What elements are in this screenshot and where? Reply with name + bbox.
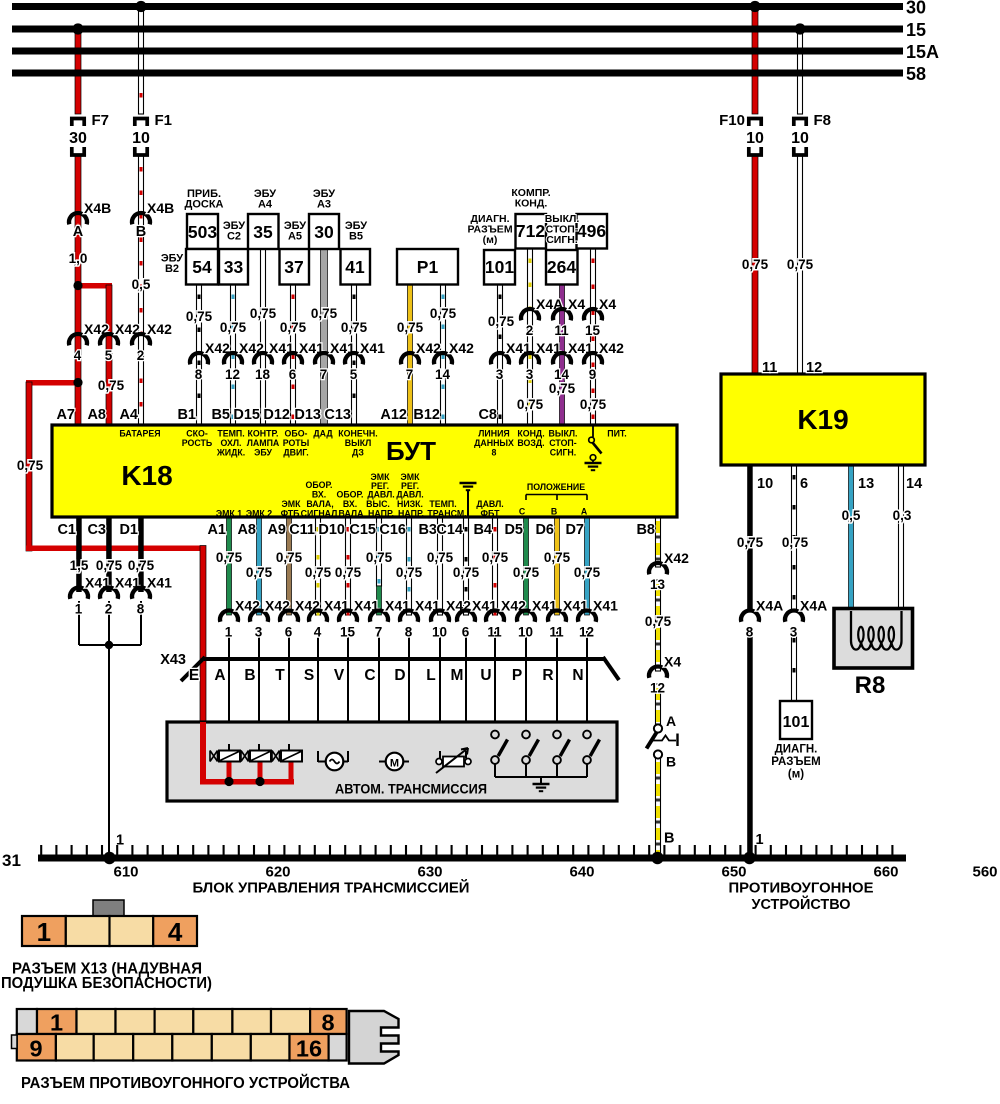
svg-text:C3: C3 bbox=[87, 522, 106, 538]
svg-text:РОСТЬ: РОСТЬ bbox=[182, 438, 213, 448]
fuse F1 10A bbox=[135, 119, 147, 127]
svg-text:D: D bbox=[394, 667, 405, 684]
svg-text:A7: A7 bbox=[56, 407, 75, 423]
svg-text:5: 5 bbox=[350, 367, 358, 382]
connector X41:8 bbox=[132, 587, 150, 598]
svg-text:6: 6 bbox=[800, 476, 808, 492]
wire: D6 position B - yellow bbox=[555, 517, 560, 615]
svg-text:620: 620 bbox=[265, 864, 290, 881]
svg-text:K18: K18 bbox=[121, 460, 172, 491]
svg-text:L: L bbox=[426, 667, 435, 684]
svg-text:D10: D10 bbox=[318, 522, 345, 538]
wire: K19 pin13 cyan to R8 bbox=[849, 465, 854, 609]
svg-text:7: 7 bbox=[320, 367, 328, 382]
svg-text:F1: F1 bbox=[155, 112, 173, 129]
svg-text:A4: A4 bbox=[119, 407, 138, 423]
busbar junction dots bbox=[72, 23, 83, 34]
svg-text:X42: X42 bbox=[449, 340, 474, 356]
svg-text:ЖИДК.: ЖИДК. bbox=[216, 448, 245, 458]
busbar 15 bbox=[12, 26, 903, 33]
svg-text:СТОП-: СТОП- bbox=[549, 438, 576, 448]
svg-text:ТРАНСМ.: ТРАНСМ. bbox=[427, 509, 466, 519]
wire: A1 solenoid1 - green bbox=[227, 517, 232, 615]
connector X13 airbag drawing bbox=[93, 900, 124, 917]
svg-text:0,75: 0,75 bbox=[17, 458, 44, 473]
wire: white/red from bus 30 through fuse F1 (column A4) bbox=[139, 6, 144, 114]
svg-text:0,75: 0,75 bbox=[276, 550, 303, 565]
svg-text:ДАВЛ.: ДАВЛ. bbox=[396, 490, 423, 500]
svg-text:0,75: 0,75 bbox=[453, 565, 480, 580]
svg-text:1,0: 1,0 bbox=[69, 251, 88, 266]
svg-text:A: A bbox=[73, 224, 84, 240]
svg-text:КОНД.: КОНД. bbox=[517, 429, 544, 439]
svg-text:101: 101 bbox=[485, 257, 514, 277]
wires: thin leads from connectors into automatic transmission bbox=[228, 628, 230, 751]
wire: A8 solenoid2 - cyan bbox=[257, 517, 262, 615]
svg-text:ФТБ: ФТБ bbox=[281, 509, 301, 519]
wire: power - white/red from 496 bbox=[591, 249, 596, 426]
svg-text:КОНД.: КОНД. bbox=[515, 198, 548, 210]
svg-text:D5: D5 bbox=[504, 522, 523, 538]
svg-text:B4: B4 bbox=[473, 522, 492, 538]
svg-text:B: B bbox=[664, 831, 674, 847]
svg-text:A: A bbox=[214, 667, 225, 684]
svg-text:СИГН.: СИГН. bbox=[550, 448, 576, 458]
svg-text:С2: С2 bbox=[227, 231, 241, 243]
svg-text:0,75: 0,75 bbox=[246, 565, 273, 580]
svg-text:(м): (м) bbox=[788, 769, 804, 781]
connector X41:7 bbox=[315, 353, 333, 364]
svg-text:ДОСКА: ДОСКА bbox=[185, 199, 224, 211]
svg-text:ВЫС.: ВЫС. bbox=[366, 499, 390, 509]
svg-text:0,75: 0,75 bbox=[366, 550, 393, 565]
svg-text:R: R bbox=[542, 667, 553, 684]
svg-text:3: 3 bbox=[790, 625, 798, 640]
svg-text:3: 3 bbox=[255, 625, 263, 640]
svg-text:F7: F7 bbox=[92, 112, 110, 129]
svg-text:ОБОР.: ОБОР. bbox=[336, 490, 363, 500]
svg-text:A12: A12 bbox=[380, 407, 407, 423]
svg-text:0,75: 0,75 bbox=[430, 306, 457, 321]
connector X42:12 bbox=[224, 353, 242, 364]
svg-text:15: 15 bbox=[585, 323, 601, 338]
svg-text:10: 10 bbox=[432, 625, 447, 640]
svg-text:0,75: 0,75 bbox=[513, 565, 540, 580]
connector X4A:8 bbox=[741, 610, 759, 621]
svg-text:ДВИГ.: ДВИГ. bbox=[283, 448, 308, 458]
svg-text:C: C bbox=[519, 507, 526, 517]
box 30 ECU A3 bbox=[309, 214, 339, 249]
busbar 30 bbox=[12, 3, 903, 10]
svg-text:СИГНАЛ: СИГНАЛ bbox=[301, 509, 338, 519]
box 503 instrument panel bbox=[187, 214, 218, 249]
box 54 bbox=[186, 249, 218, 285]
svg-text:4: 4 bbox=[314, 625, 322, 640]
svg-text:8: 8 bbox=[321, 1010, 334, 1036]
svg-text:0,75: 0,75 bbox=[396, 565, 423, 580]
svg-text:ПОДУШКА БЕЗОПАСНОСТИ): ПОДУШКА БЕЗОПАСНОСТИ) bbox=[1, 975, 212, 992]
svg-text:P: P bbox=[512, 667, 522, 684]
connector X41:6 bbox=[284, 353, 302, 364]
svg-text:37: 37 bbox=[284, 257, 303, 277]
connector X41:8 bbox=[400, 610, 418, 621]
svg-text:N: N bbox=[572, 667, 583, 684]
svg-text:0,75: 0,75 bbox=[186, 309, 213, 324]
wire: white F8 (K19 pin 12) bbox=[798, 29, 803, 114]
svg-text:А4: А4 bbox=[258, 199, 273, 211]
connector X41:6 bbox=[457, 610, 475, 621]
wire: K19 pin6 white/black to X4A:3 and connector 101 bbox=[792, 465, 797, 611]
svg-text:D13: D13 bbox=[294, 407, 321, 423]
svg-text:264: 264 bbox=[547, 257, 576, 277]
K18 internal ground (C14 area) bbox=[467, 490, 469, 517]
fuse F10 10A bbox=[749, 119, 761, 127]
svg-text:КОНТР.: КОНТР. bbox=[248, 429, 279, 439]
svg-text:11: 11 bbox=[487, 625, 502, 640]
svg-text:D7: D7 bbox=[565, 522, 584, 538]
svg-text:0,75: 0,75 bbox=[128, 558, 155, 573]
svg-text:610: 610 bbox=[113, 864, 138, 881]
wire: B8 - white/yellow to X42:13 bbox=[656, 517, 661, 567]
svg-text:ВХ.: ВХ. bbox=[312, 490, 326, 500]
svg-text:C13: C13 bbox=[324, 407, 351, 423]
svg-text:ЛИНИЯ: ЛИНИЯ bbox=[478, 429, 510, 439]
box 496 stop signal switch bbox=[577, 214, 608, 249]
wire: B12 - white/cyan from P1 bbox=[441, 285, 446, 426]
svg-text:10: 10 bbox=[132, 130, 150, 147]
connector X42:2 bbox=[132, 334, 150, 345]
svg-text:7: 7 bbox=[406, 367, 414, 382]
svg-text:18: 18 bbox=[255, 367, 271, 382]
svg-text:B: B bbox=[666, 754, 676, 770]
connector X41:7 bbox=[370, 610, 388, 621]
svg-text:8: 8 bbox=[195, 367, 203, 382]
svg-text:0,75: 0,75 bbox=[341, 320, 368, 335]
svg-text:X4A: X4A bbox=[800, 598, 827, 614]
svg-text:15A: 15A bbox=[906, 42, 939, 62]
connector X42:7 bbox=[401, 353, 419, 364]
svg-text:0,75: 0,75 bbox=[782, 535, 809, 550]
svg-text:630: 630 bbox=[417, 864, 442, 881]
connector X41:4 bbox=[309, 610, 327, 621]
svg-text:6: 6 bbox=[285, 625, 293, 640]
svg-text:8: 8 bbox=[137, 602, 145, 617]
svg-text:13: 13 bbox=[858, 476, 874, 492]
svg-text:М: М bbox=[390, 758, 399, 770]
red supply rail inside transmission bbox=[200, 722, 206, 784]
bus junction dots bbox=[103, 852, 115, 864]
connector X42:8 bbox=[190, 353, 208, 364]
svg-text:РАЗЪЕМ: РАЗЪЕМ bbox=[771, 756, 820, 768]
svg-text:БЛОК УПРАВЛЕНИЯ ТРАНСМИССИЕЙ: БЛОК УПРАВЛЕНИЯ ТРАНСМИССИЕЙ bbox=[193, 879, 470, 897]
svg-text:X4B: X4B bbox=[84, 200, 111, 216]
svg-text:А3: А3 bbox=[317, 199, 331, 211]
wire: C16 - white/cyan bbox=[407, 517, 412, 615]
svg-text:8: 8 bbox=[746, 625, 754, 640]
svg-text:14: 14 bbox=[906, 476, 922, 492]
variable resistor (temp sensor) bbox=[436, 759, 442, 765]
svg-text:D6: D6 bbox=[535, 522, 554, 538]
wire: B8 from switch contact B down to bus 31 bbox=[656, 758, 661, 858]
connector X42:13 on B8 wire bbox=[649, 563, 667, 574]
connector X42:5 bbox=[100, 334, 118, 345]
svg-text:0,75: 0,75 bbox=[335, 565, 362, 580]
wire: K19 pin14 white to R8 bbox=[899, 465, 904, 609]
svg-text:ОБОР.: ОБОР. bbox=[305, 480, 332, 490]
motor symbol M bbox=[386, 753, 404, 771]
connector X4B pin B bbox=[132, 213, 150, 224]
svg-text:X41: X41 bbox=[360, 340, 385, 356]
svg-text:A1: A1 bbox=[207, 522, 226, 538]
anti-theft connector drawing bbox=[17, 1009, 37, 1034]
svg-text:E: E bbox=[189, 667, 199, 684]
solenoid 1 bbox=[210, 751, 218, 762]
connector X41:15 bbox=[339, 610, 357, 621]
svg-text:31: 31 bbox=[2, 851, 21, 870]
svg-text:R8: R8 bbox=[855, 672, 886, 699]
wire: ground lead down to bus 31 bbox=[108, 645, 110, 858]
svg-text:1: 1 bbox=[50, 1010, 63, 1036]
svg-text:1: 1 bbox=[37, 917, 51, 947]
svg-text:РАЗЪЕМ ПРОТИВОУГОННОГО УСТРОЙС: РАЗЪЕМ ПРОТИВОУГОННОГО УСТРОЙСТВА bbox=[21, 1074, 350, 1092]
svg-text:A: A bbox=[666, 713, 676, 729]
svg-text:БУТ: БУТ bbox=[386, 436, 436, 466]
svg-text:ДИАГН.: ДИАГН. bbox=[775, 744, 818, 756]
svg-text:15: 15 bbox=[906, 20, 926, 40]
svg-text:0,75: 0,75 bbox=[96, 558, 123, 573]
svg-text:35: 35 bbox=[253, 222, 273, 242]
svg-text:(м): (м) bbox=[483, 234, 498, 246]
svg-text:5: 5 bbox=[105, 348, 113, 363]
svg-text:ВЫКЛ.: ВЫКЛ. bbox=[549, 429, 578, 439]
svg-text:1,5: 1,5 bbox=[70, 558, 89, 573]
diagnostic connector 101 bbox=[780, 701, 812, 739]
R8 coil bbox=[851, 611, 902, 650]
svg-text:101: 101 bbox=[783, 714, 810, 731]
box 41 bbox=[341, 249, 371, 285]
connector X41:1 bbox=[70, 587, 88, 598]
svg-text:B5: B5 bbox=[211, 407, 230, 423]
svg-text:0,75: 0,75 bbox=[517, 397, 544, 412]
svg-text:0,75: 0,75 bbox=[580, 397, 607, 412]
svg-text:6: 6 bbox=[462, 625, 470, 640]
svg-text:560: 560 bbox=[972, 864, 997, 881]
wire: a/c - white/yellow from 712 bbox=[528, 249, 533, 426]
connector X42:1 bbox=[220, 610, 238, 621]
svg-text:M: M bbox=[451, 667, 464, 684]
svg-text:30: 30 bbox=[69, 130, 87, 147]
svg-text:41: 41 bbox=[345, 257, 365, 277]
svg-text:13: 13 bbox=[650, 577, 666, 592]
connector X41:3 bbox=[521, 353, 539, 364]
svg-text:U: U bbox=[480, 667, 491, 684]
svg-text:0,75: 0,75 bbox=[280, 320, 307, 335]
svg-text:K19: K19 bbox=[797, 404, 848, 435]
svg-text:12: 12 bbox=[806, 360, 822, 376]
wire: B1 speed - white/black bbox=[197, 285, 202, 426]
connector X41:14 bbox=[553, 353, 571, 364]
svg-text:ВХ.: ВХ. bbox=[343, 499, 357, 509]
svg-text:X42: X42 bbox=[664, 550, 689, 566]
svg-text:11: 11 bbox=[554, 323, 569, 338]
svg-text:4: 4 bbox=[74, 348, 82, 363]
wire: D13 - grey from box 30 bbox=[321, 249, 328, 425]
connector X4:11 bbox=[553, 309, 571, 320]
svg-text:33: 33 bbox=[224, 257, 244, 277]
svg-text:X41: X41 bbox=[147, 575, 172, 591]
svg-text:НАПР.: НАПР. bbox=[368, 509, 394, 519]
svg-text:9: 9 bbox=[589, 367, 597, 382]
wire: D12 - white/red bbox=[291, 285, 296, 426]
connector X42:10 bbox=[431, 610, 449, 621]
svg-text:D12: D12 bbox=[263, 407, 290, 423]
connector X4A:2 bbox=[521, 309, 539, 320]
resistor R8 bbox=[834, 609, 913, 669]
svg-text:496: 496 bbox=[577, 221, 606, 241]
svg-text:СКО-: СКО- bbox=[186, 429, 208, 439]
box 37 bbox=[280, 249, 310, 285]
svg-text:650: 650 bbox=[721, 864, 746, 881]
connector X41:11 bbox=[548, 610, 566, 621]
svg-text:6: 6 bbox=[289, 367, 297, 382]
wire: D7 position A - cyan bbox=[585, 517, 590, 615]
connector X42:9 bbox=[584, 353, 602, 364]
svg-text:ФБТ: ФБТ bbox=[481, 509, 501, 519]
connector X41:5 bbox=[345, 353, 363, 364]
svg-text:0,75: 0,75 bbox=[742, 257, 769, 272]
connector X42:14 bbox=[434, 353, 452, 364]
svg-text:10: 10 bbox=[791, 130, 809, 147]
svg-text:0,75: 0,75 bbox=[645, 614, 672, 629]
svg-text:X4B: X4B bbox=[147, 200, 174, 216]
svg-text:РОТЫ: РОТЫ bbox=[283, 438, 310, 448]
wire: C15 - white/cyan then green bbox=[377, 517, 382, 586]
connector X41:12 bbox=[578, 610, 596, 621]
svg-text:D15: D15 bbox=[233, 407, 260, 423]
svg-text:C14: C14 bbox=[436, 522, 463, 538]
svg-text:0,75: 0,75 bbox=[787, 257, 814, 272]
svg-text:АВТОМ. ТРАНСМИССИЯ: АВТОМ. ТРАНСМИССИЯ bbox=[335, 781, 487, 797]
svg-text:ДЗ: ДЗ bbox=[352, 448, 364, 458]
right plug of anti-theft connector bbox=[349, 1011, 399, 1064]
svg-text:0,75: 0,75 bbox=[574, 565, 601, 580]
svg-text:B1: B1 bbox=[177, 407, 196, 423]
busbar 15A bbox=[12, 48, 903, 55]
svg-text:2: 2 bbox=[526, 323, 534, 338]
svg-text:12: 12 bbox=[650, 681, 665, 696]
wire: A9 FTB - brown bbox=[287, 517, 292, 615]
svg-text:ЛАМПА: ЛАМПА bbox=[247, 438, 280, 448]
svg-text:ВАЛА,: ВАЛА, bbox=[306, 499, 333, 509]
wire: C8 data line - white/black bbox=[498, 285, 503, 426]
svg-text:НАПР.: НАПР. bbox=[398, 509, 424, 519]
wire: B8 between X4:12 and switch contact A bbox=[656, 684, 661, 724]
svg-text:C1: C1 bbox=[57, 522, 76, 538]
svg-text:ВЫКЛ: ВЫКЛ bbox=[345, 438, 372, 448]
svg-text:B: B bbox=[136, 224, 146, 240]
svg-text:54: 54 bbox=[192, 257, 212, 277]
wire: C11 - white/yellow bbox=[316, 517, 321, 615]
svg-text:ВОЗД.: ВОЗД. bbox=[517, 438, 544, 448]
solenoid 2 bbox=[241, 751, 249, 762]
connector X41:18 bbox=[254, 353, 272, 364]
svg-text:0,75: 0,75 bbox=[544, 550, 571, 565]
svg-text:X43: X43 bbox=[160, 652, 186, 668]
wire: D10 - white/red bbox=[346, 517, 351, 615]
wire: red branch left down to X43:E bbox=[26, 380, 81, 386]
svg-text:0,75: 0,75 bbox=[427, 550, 454, 565]
svg-text:ВАЛА: ВАЛА bbox=[339, 509, 365, 519]
wire: B8 between X42:13 and X4:12 bbox=[656, 580, 661, 671]
svg-text:ЭБУ: ЭБУ bbox=[254, 448, 272, 458]
solenoid 3 bbox=[272, 751, 280, 762]
wire: A12 - yellow from P1 bbox=[408, 285, 413, 426]
svg-text:0,5: 0,5 bbox=[842, 508, 861, 523]
svg-text:30: 30 bbox=[906, 0, 926, 18]
box 35 ECU A4 bbox=[248, 214, 279, 249]
wire: D1 black to X41:8 bbox=[138, 517, 144, 592]
connector X4:12 on B8 wire bbox=[649, 666, 667, 677]
svg-text:C15: C15 bbox=[349, 522, 376, 538]
svg-text:S: S bbox=[304, 667, 314, 684]
svg-text:ОХЛ.: ОХЛ. bbox=[221, 438, 242, 448]
connector X42:11 bbox=[486, 610, 504, 621]
svg-text:2: 2 bbox=[105, 602, 113, 617]
svg-text:БАТАРЕЯ: БАТАРЕЯ bbox=[119, 429, 160, 439]
svg-text:640: 640 bbox=[569, 864, 594, 881]
svg-text:В5: В5 bbox=[349, 231, 363, 243]
svg-text:ДАД: ДАД bbox=[313, 429, 333, 439]
svg-text:А5: А5 bbox=[288, 231, 302, 243]
svg-text:T: T bbox=[275, 667, 285, 684]
svg-text:ДАВЛ.: ДАВЛ. bbox=[476, 499, 503, 509]
box 712 compressor bbox=[516, 214, 547, 249]
svg-text:ТЕМП.: ТЕМП. bbox=[429, 499, 456, 509]
svg-text:СИГН.: СИГН. bbox=[546, 234, 578, 246]
box 264 bbox=[546, 250, 578, 285]
svg-text:14: 14 bbox=[435, 367, 451, 382]
svg-text:C8: C8 bbox=[478, 407, 497, 423]
wire: C3 black to X41:2 bbox=[106, 517, 112, 592]
svg-text:КОНЕЧН.: КОНЕЧН. bbox=[338, 429, 377, 439]
svg-text:ТЕМП.: ТЕМП. bbox=[217, 429, 244, 439]
svg-text:B: B bbox=[551, 507, 557, 517]
svg-text:A9: A9 bbox=[267, 522, 286, 538]
join of X41 1/2/8 to ground bus bbox=[78, 601, 80, 645]
svg-text:C: C bbox=[364, 667, 375, 684]
box 33 bbox=[219, 249, 248, 285]
svg-text:30: 30 bbox=[314, 222, 334, 242]
svg-text:ОБО-: ОБО- bbox=[285, 429, 308, 439]
wire: C1 black to X41:1 bbox=[76, 517, 82, 592]
connector X4A:3 bbox=[785, 610, 803, 621]
svg-text:58: 58 bbox=[906, 64, 926, 84]
svg-text:ДАВЛ.: ДАВЛ. bbox=[367, 490, 394, 500]
svg-text:X4: X4 bbox=[568, 296, 585, 312]
svg-text:4: 4 bbox=[168, 917, 183, 947]
wire: K19 pin10 black to X4A:8 and bus 31 bbox=[747, 465, 753, 611]
svg-text:0,75: 0,75 bbox=[250, 306, 277, 321]
wire: B4 - white/red bbox=[493, 517, 498, 615]
bus 31 tick marks bbox=[40, 845, 42, 855]
svg-text:A8: A8 bbox=[237, 522, 256, 538]
svg-text:16: 16 bbox=[296, 1036, 322, 1062]
svg-text:X4A: X4A bbox=[756, 598, 783, 614]
svg-text:10: 10 bbox=[746, 130, 764, 147]
svg-text:C16: C16 bbox=[379, 522, 406, 538]
svg-text:503: 503 bbox=[188, 222, 217, 242]
generator symbol (speed sensor) bbox=[326, 753, 344, 771]
